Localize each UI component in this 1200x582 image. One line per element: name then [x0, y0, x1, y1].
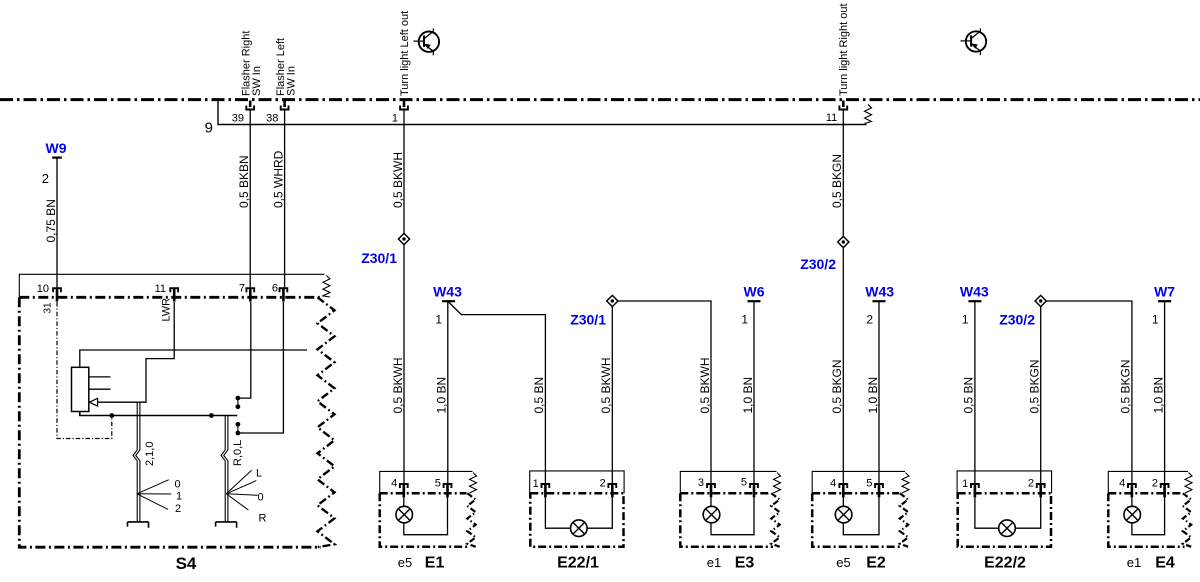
right rail break kink	[221, 450, 225, 461]
wire 0,5 WHRD from pin 38 to S4 pin 6	[284, 109, 286, 288]
E22/1 dash-dot border	[530, 493, 623, 547]
internal wiring of E2	[843, 497, 879, 534]
junction dot (switch tap)	[209, 413, 214, 418]
terminal pin 39	[249, 101, 252, 108]
svg-text:0,5 BKGN: 0,5 BKGN	[830, 154, 844, 208]
S4 outer solid border (partial)	[19, 274, 324, 296]
terminal bar W6	[748, 300, 761, 302]
E22/2 thin solid border (partial)	[957, 471, 1052, 493]
terminal S4 pin 7	[246, 288, 254, 292]
svg-text:0,5 BKWH: 0,5 BKWH	[391, 152, 405, 208]
svg-text:1: 1	[176, 491, 182, 503]
svg-text:1,0 BN: 1,0 BN	[741, 377, 755, 414]
relay coil box (flasher mechanism)	[72, 367, 89, 411]
svg-text:10: 10	[37, 283, 49, 295]
svg-text:E2: E2	[866, 555, 886, 572]
svg-text:e1: e1	[707, 555, 721, 570]
svg-text:0: 0	[175, 479, 181, 491]
terminal pin 5 of E1	[444, 484, 452, 488]
contact stub upper	[89, 376, 111, 378]
wire 0,5 BN from W43 to E22/2 pin 1	[974, 301, 976, 484]
svg-text:0,5 BKGN: 0,5 BKGN	[830, 359, 844, 413]
component boundary dash-dot line (top)	[0, 98, 1200, 101]
arrow actuating line (to pin 11)	[97, 302, 174, 402]
svg-text:0,75 BN: 0,75 BN	[44, 199, 58, 242]
connector Z30/1 diamond (lower)	[607, 295, 618, 306]
terminal bar W43 left	[442, 300, 455, 302]
internal wiring of E22/2	[975, 497, 1041, 528]
terminal bar W7	[1158, 300, 1171, 302]
svg-text:0,5 BKWH: 0,5 BKWH	[698, 357, 712, 413]
svg-text:2: 2	[42, 171, 49, 186]
terminal pin 4 of E1	[400, 484, 408, 488]
left switch position fan	[137, 480, 169, 494]
terminal pin 11	[842, 101, 845, 108]
wire 1,0 BN from W6 to E3 pin 5	[753, 301, 755, 484]
terminal pin 1	[403, 101, 406, 108]
svg-text:e1: e1	[1127, 555, 1141, 570]
svg-text:e5: e5	[836, 555, 850, 570]
terminal pin 2 of E4	[1161, 484, 1169, 488]
terminal pin 4 of E2	[839, 484, 847, 488]
E2 thin solid border (partial, torn)	[812, 471, 905, 493]
terminal S4 pin 11	[170, 288, 178, 292]
label Flasher Left / SW In (pin 38)	[275, 38, 297, 96]
E22/2 dash-dot border	[958, 493, 1051, 547]
svg-text:0: 0	[258, 492, 264, 504]
svg-text:9: 9	[205, 120, 213, 137]
internal wiring of E22/1	[545, 497, 612, 528]
wire 0,5 BKGN from Z30/2 to E22/2 pin 2	[1040, 307, 1042, 484]
svg-text:11: 11	[155, 283, 166, 295]
terminal pin 4 of E4	[1128, 484, 1136, 488]
svg-text:2,1,0: 2,1,0	[144, 442, 156, 466]
wire 0,5 BN from W43 to E22/1 pin 1	[449, 302, 546, 484]
E4 torn edge (right)	[1183, 493, 1191, 547]
svg-text:1: 1	[962, 478, 968, 490]
E1 dash-dot border	[380, 493, 469, 547]
svg-text:1,0 BN: 1,0 BN	[1151, 377, 1165, 414]
svg-text:LWR: LWR	[161, 298, 173, 322]
E22/1 thin solid border (partial)	[530, 471, 624, 493]
svg-text:1: 1	[533, 478, 539, 490]
svg-text:SW In: SW In	[285, 66, 297, 96]
svg-text:S4: S4	[176, 554, 197, 573]
svg-text:R,0,L: R,0,L	[232, 440, 244, 466]
svg-text:W43: W43	[433, 284, 462, 300]
S4 torn thin edge (top right)	[323, 276, 330, 298]
svg-text:0,5 BN: 0,5 BN	[532, 377, 546, 414]
wire S4 pin 6 to lower contact	[240, 302, 283, 433]
right switch contact rail (R,0,L)	[224, 416, 226, 450]
connector Z30/2 diamond (lower)	[1035, 295, 1046, 306]
wire 0,5 BKBN from pin 39 to S4 pin 7	[249, 109, 251, 288]
svg-text:E22/1: E22/1	[557, 555, 599, 572]
ground path dash-dot from pin 10 to switch common	[57, 302, 112, 439]
terminal pin 5 of E3	[750, 484, 758, 488]
terminal pin 2 of E22/1	[608, 484, 616, 488]
E2 torn edge (right)	[900, 493, 908, 547]
internal wiring of E4	[1132, 497, 1165, 534]
E4 dash-dot border	[1108, 493, 1184, 547]
svg-text:W43: W43	[960, 284, 989, 300]
svg-text:E1: E1	[425, 555, 445, 572]
E3 thin torn edge	[774, 473, 781, 493]
label Flasher Right / SW In (pin 39)	[241, 31, 263, 96]
terminal S4 pin 6	[280, 288, 288, 292]
svg-text:2: 2	[866, 313, 873, 327]
svg-text:2: 2	[1028, 478, 1034, 490]
svg-text:1,0 BN: 1,0 BN	[866, 377, 880, 414]
svg-text:Turn light Right out: Turn light Right out	[838, 3, 850, 96]
terminal bar W43 right	[968, 300, 981, 302]
wire 0,5 BKGN from pin 11 down to E2 pin 4	[842, 109, 844, 484]
wire 1,0 BN from W43 to E2 pin 5	[878, 301, 880, 484]
wire 0,5 BKWH from pin 1 down to E1 pin 4	[403, 109, 405, 484]
svg-text:W9: W9	[46, 140, 67, 156]
svg-text:1: 1	[435, 313, 442, 327]
svg-text:1,0 BN: 1,0 BN	[435, 377, 449, 414]
svg-text:0,5 BKGN: 0,5 BKGN	[1119, 359, 1133, 413]
transistor icon (turn light left output)	[413, 29, 439, 56]
svg-text:R: R	[259, 513, 267, 525]
svg-text:4: 4	[830, 478, 836, 490]
wire from coil top to hazard feed	[80, 350, 307, 367]
svg-text:E4: E4	[1155, 555, 1175, 572]
svg-text:5: 5	[866, 478, 872, 490]
wire 1,0 BN from W7 to E4 pin 2	[1164, 301, 1166, 484]
wire 0,5 BKWH from Z30/1 to E22/1 pin 2	[611, 307, 613, 484]
E3 torn edge (right)	[771, 493, 779, 547]
svg-text:SW In: SW In	[251, 66, 263, 96]
turn signal lamp in E22/2	[999, 520, 1016, 537]
left rail break kink	[133, 450, 137, 461]
wire 0,5 BKGN from Z30/2 to E4 pin 4	[1046, 301, 1132, 484]
connector Z30/1 diamond (on feed wire)	[398, 233, 409, 244]
svg-text:0,5 BKBN: 0,5 BKBN	[237, 155, 251, 208]
wire 0,5 BKWH from Z30/1 to E3 pin 3	[618, 301, 711, 484]
svg-text:4: 4	[391, 478, 397, 490]
svg-text:5: 5	[741, 477, 747, 489]
svg-text:Turn light Left out: Turn light Left out	[399, 11, 411, 96]
left switch contact rail (2,1,0)	[136, 403, 138, 450]
svg-text:39: 39	[232, 113, 244, 125]
E3 thin solid border (partial, torn)	[680, 471, 776, 493]
svg-text:2: 2	[1152, 478, 1158, 490]
E4 thin torn edge	[1185, 473, 1192, 493]
terminal pin 2 of E22/2	[1037, 484, 1045, 488]
svg-text:Z30/2: Z30/2	[800, 256, 836, 272]
turn signal lamp in E3	[703, 506, 720, 523]
svg-text:e5: e5	[398, 555, 412, 570]
turn signal lamp in E4	[1124, 506, 1141, 523]
turn signal lamp in E22/1	[571, 520, 588, 537]
svg-text:1: 1	[962, 313, 969, 327]
left switch foot	[128, 522, 149, 528]
right switch foot	[216, 522, 237, 528]
E4 thin solid border (partial, torn)	[1108, 471, 1188, 493]
svg-text:31: 31	[43, 302, 54, 314]
svg-text:4: 4	[1119, 478, 1125, 490]
svg-text:W7: W7	[1154, 284, 1175, 300]
terminal pin 3 of E3	[707, 484, 715, 488]
E2 dash-dot border	[812, 493, 901, 547]
junction dot (ground tap)	[109, 413, 114, 418]
torn edge of bus line 9	[865, 105, 872, 124]
E3 dash-dot border	[680, 493, 773, 547]
svg-text:1: 1	[392, 113, 398, 125]
terminal bar W43 middle	[873, 300, 886, 302]
connector Z30/2 diamond (on feed wire)	[838, 236, 849, 247]
turn signal lamp in E1	[396, 506, 413, 523]
svg-text:Z30/1: Z30/1	[361, 250, 397, 266]
S4 torn edge (right)	[318, 297, 335, 547]
right switch position fan	[226, 470, 251, 494]
svg-text:Z30/1: Z30/1	[570, 312, 606, 328]
svg-text:E22/2: E22/2	[984, 555, 1026, 572]
wire S4 pin 7 to upper contact	[240, 302, 251, 398]
svg-text:0,5 BN: 0,5 BN	[962, 377, 976, 414]
svg-text:0,5 BKWH: 0,5 BKWH	[391, 357, 405, 413]
svg-text:0,5 BKWH: 0,5 BKWH	[599, 357, 613, 413]
wire 0,75 BN from W9 to S4 pin 10	[56, 158, 58, 288]
terminal pin 1 of E22/1	[542, 484, 550, 488]
svg-text:0,5 BKGN: 0,5 BKGN	[1028, 359, 1042, 413]
svg-text:1: 1	[741, 313, 748, 327]
svg-text:0,5 WHRD: 0,5 WHRD	[271, 150, 285, 208]
svg-text:E3: E3	[735, 555, 755, 572]
svg-text:5: 5	[435, 478, 441, 490]
svg-text:W6: W6	[744, 284, 765, 300]
svg-text:W43: W43	[865, 284, 894, 300]
terminal pin 38	[283, 101, 286, 108]
wire from coil bottom to switch common	[80, 412, 238, 416]
svg-text:6: 6	[272, 283, 278, 295]
svg-text:2: 2	[175, 503, 181, 515]
svg-text:2: 2	[600, 478, 606, 490]
terminal pin 5 of E2	[875, 484, 883, 488]
E1 torn edge (right)	[467, 493, 475, 547]
svg-text:L: L	[256, 468, 262, 480]
internal wiring of E1	[404, 497, 448, 534]
svg-text:11: 11	[826, 112, 837, 124]
terminal S4 pin 10	[53, 288, 61, 292]
transistor icon (turn light right output)	[961, 28, 987, 55]
svg-text:3: 3	[698, 477, 704, 489]
E2 thin torn edge	[902, 473, 909, 493]
E1 thin solid border (partial, torn)	[380, 471, 473, 493]
turn signal lamp in E2	[835, 506, 852, 523]
contact dot pair lower (turn left)	[236, 422, 241, 427]
contact dot pair upper (turn right)	[236, 396, 241, 401]
svg-text:1: 1	[1152, 313, 1159, 327]
svg-text:7: 7	[239, 283, 245, 295]
E1 thin torn edge	[470, 473, 477, 493]
svg-text:Z30/2: Z30/2	[999, 312, 1035, 328]
svg-text:38: 38	[266, 113, 278, 125]
terminal pin 1 of E22/2	[971, 484, 979, 488]
terminal bar W9	[52, 157, 62, 159]
S4 dash-dot border	[19, 297, 321, 547]
contact stub lower	[89, 388, 111, 390]
wire 1,0 BN from W43 to E1 pin 5	[447, 301, 449, 484]
bus line 9 (internal connection)	[218, 101, 867, 125]
internal wiring of E3	[711, 497, 754, 534]
